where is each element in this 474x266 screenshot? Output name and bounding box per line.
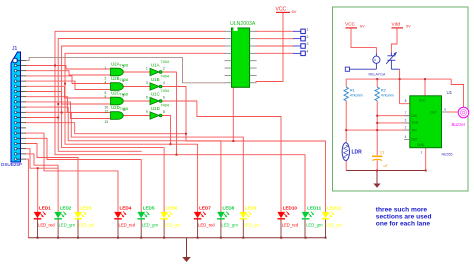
svg-text:LED12: LED12	[327, 205, 342, 210]
svg-text:3: 3	[444, 108, 446, 112]
svg-text:12: 12	[105, 109, 109, 113]
svg-text:LED_grn: LED_grn	[59, 223, 76, 228]
svg-text:2: 2	[163, 66, 165, 70]
svg-text:U1C: U1C	[151, 92, 160, 97]
svg-text:6V: 6V	[360, 25, 365, 29]
svg-text:3: 3	[146, 81, 148, 85]
svg-text:Vdd: Vdd	[392, 22, 401, 28]
svg-text:3: 3	[307, 42, 309, 46]
svg-text:LED_grn: LED_grn	[306, 223, 323, 228]
svg-text:4: 4	[405, 135, 407, 139]
svg-text:C1: C1	[380, 150, 385, 154]
svg-text:U2B: U2B	[111, 76, 120, 81]
svg-text:9: 9	[105, 95, 107, 99]
svg-text:LED_red: LED_red	[38, 223, 55, 228]
svg-text:7404: 7404	[161, 104, 169, 108]
svg-text:VCC: VCC	[276, 7, 287, 13]
svg-text:5: 5	[146, 95, 148, 99]
svg-text:9: 9	[146, 110, 148, 114]
svg-text:7404: 7404	[161, 75, 169, 79]
svg-text:three such more: three such more	[376, 207, 428, 214]
svg-text:U1B: U1B	[151, 77, 160, 82]
svg-text:8: 8	[123, 94, 125, 98]
svg-text:7404: 7404	[161, 89, 169, 93]
svg-text:LED7: LED7	[199, 205, 211, 210]
svg-text:LED_yel: LED_yel	[165, 223, 181, 228]
svg-text:OUT: OUT	[430, 110, 437, 114]
svg-text:2: 2	[405, 126, 407, 130]
svg-text:VCC: VCC	[419, 99, 426, 103]
svg-text:1: 1	[146, 66, 148, 70]
svg-text:4: 4	[307, 50, 309, 54]
svg-text:6V: 6V	[292, 9, 297, 14]
svg-text:LED_red: LED_red	[198, 223, 215, 228]
svg-text:1: 1	[421, 151, 423, 155]
svg-text:LED1: LED1	[39, 205, 51, 210]
svg-text:LED_yel: LED_yel	[244, 223, 260, 228]
svg-text:LED5: LED5	[143, 205, 155, 210]
svg-text:1: 1	[105, 66, 107, 70]
svg-text:47kohm: 47kohm	[381, 94, 394, 98]
svg-text:7404: 7404	[161, 60, 169, 64]
svg-text:LED4: LED4	[120, 205, 132, 210]
svg-text:LED3: LED3	[80, 205, 92, 210]
svg-text:LED_red: LED_red	[119, 223, 136, 228]
svg-text:DSUB25P: DSUB25P	[1, 162, 22, 167]
svg-text:LED_grn: LED_grn	[221, 223, 238, 228]
svg-text:6: 6	[123, 79, 125, 83]
svg-text:TRI: TRI	[412, 128, 417, 132]
svg-text:47kohm: 47kohm	[350, 94, 363, 98]
svg-text:LED6: LED6	[166, 205, 178, 210]
svg-text:k: k	[375, 58, 377, 62]
svg-text:THR: THR	[412, 121, 419, 125]
svg-text:LED_grn: LED_grn	[142, 223, 159, 228]
svg-text:8: 8	[405, 99, 407, 103]
svg-text:U2A: U2A	[111, 62, 120, 67]
svg-text:13: 13	[105, 120, 109, 124]
svg-text:RST: RST	[412, 138, 418, 142]
svg-text:7: 7	[405, 111, 407, 115]
svg-text:one for each lane: one for each lane	[376, 221, 431, 228]
svg-text:6: 6	[405, 118, 407, 122]
svg-text:6: 6	[163, 95, 165, 99]
svg-text:LED_yel: LED_yel	[79, 223, 95, 228]
svg-text:GND: GND	[417, 143, 425, 147]
svg-text:3: 3	[123, 65, 125, 69]
svg-text:U2D: U2D	[111, 105, 120, 110]
svg-text:RELAY/1A: RELAY/1A	[369, 72, 387, 76]
svg-text:1: 1	[307, 28, 309, 32]
svg-text:NE555: NE555	[442, 153, 453, 157]
svg-text:LED2: LED2	[60, 205, 72, 210]
svg-text:LED_yel: LED_yel	[326, 223, 342, 228]
svg-text:LED9: LED9	[245, 205, 257, 210]
svg-text:ULN2003A: ULN2003A	[230, 21, 256, 27]
svg-text:4: 4	[105, 80, 107, 84]
svg-text:LED_red: LED_red	[282, 223, 299, 228]
svg-text:U1A: U1A	[151, 63, 160, 68]
svg-text:4: 4	[163, 81, 165, 85]
svg-text:Buzzer: Buzzer	[452, 122, 466, 127]
svg-text:2: 2	[307, 35, 309, 39]
svg-text:5V: 5V	[406, 25, 411, 29]
svg-text:R2: R2	[381, 88, 387, 93]
svg-text:DIS: DIS	[412, 114, 417, 118]
svg-text:8: 8	[163, 110, 165, 114]
svg-text:sections are used: sections are used	[376, 214, 432, 221]
svg-text:LED8: LED8	[222, 205, 234, 210]
svg-text:LED11: LED11	[307, 205, 321, 210]
svg-text:J1: J1	[12, 46, 18, 52]
svg-text:R1: R1	[350, 88, 356, 93]
svg-text:LED10: LED10	[283, 205, 298, 210]
svg-text:VCC: VCC	[345, 22, 356, 28]
svg-text:U1: U1	[447, 90, 453, 95]
svg-text:11: 11	[123, 108, 127, 112]
svg-text:U1D: U1D	[151, 106, 160, 111]
svg-text:LDR: LDR	[352, 150, 363, 156]
svg-text:U2C: U2C	[111, 91, 120, 96]
